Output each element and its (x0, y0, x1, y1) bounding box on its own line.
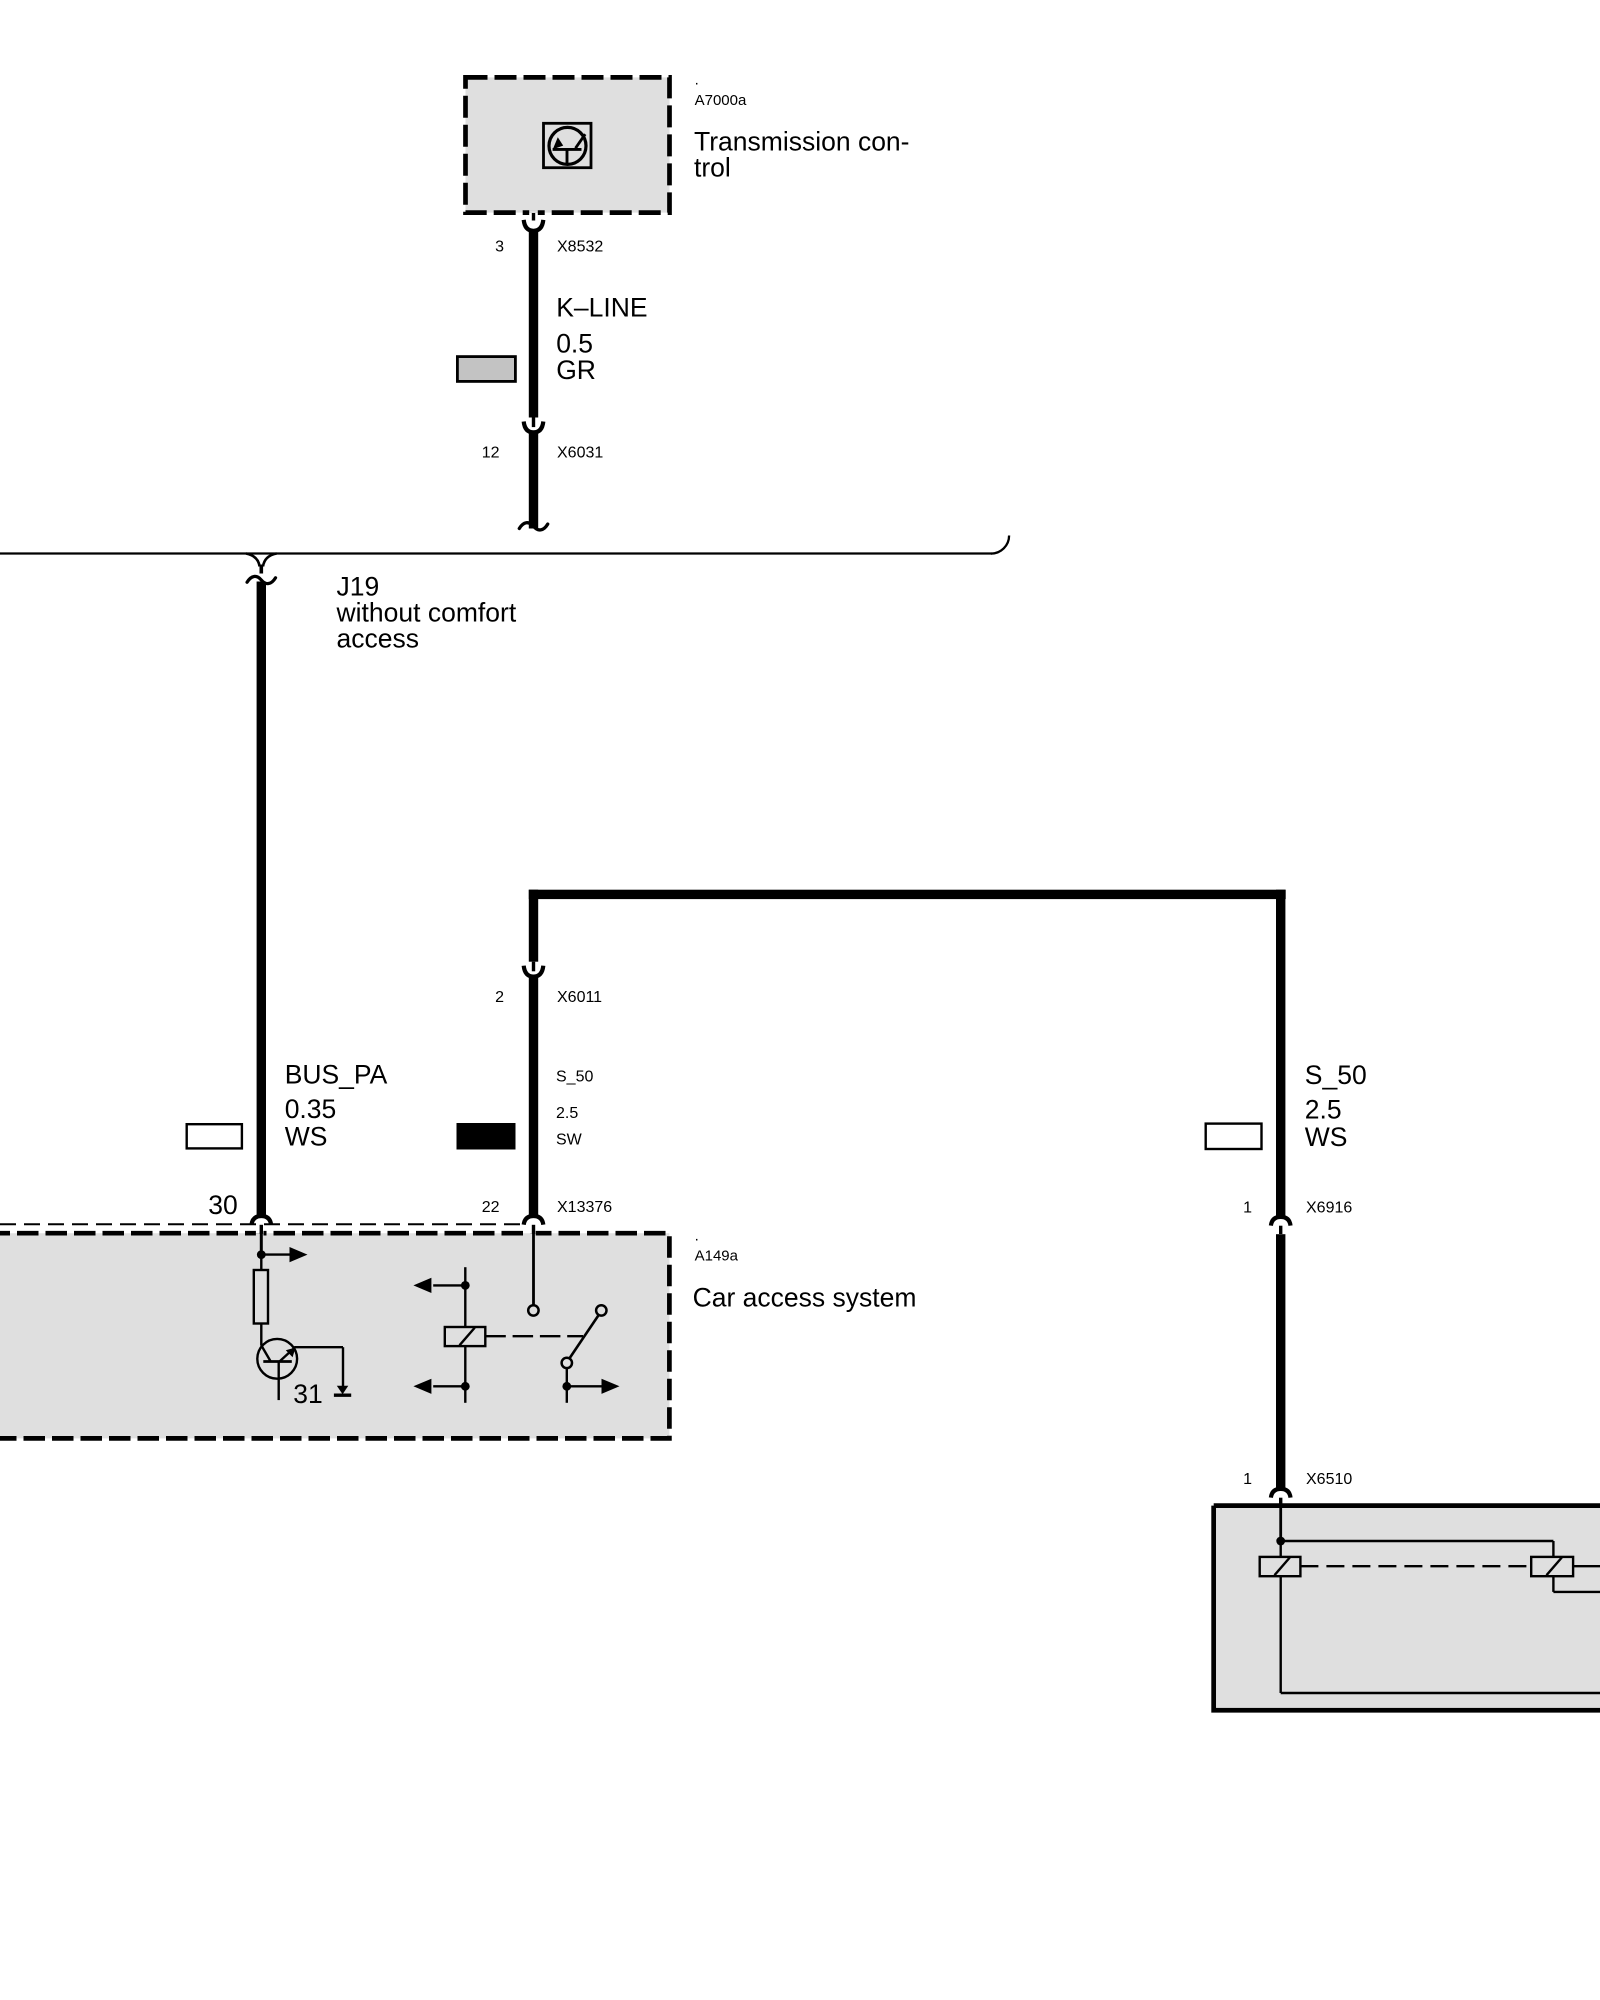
transistor base lead (260, 1324, 262, 1346)
svg-text:WS: WS (1305, 1122, 1348, 1152)
harness bus line (0, 552, 992, 554)
relay coil K3 lower lead (1552, 1576, 1554, 1592)
option region dashed boundary (0, 1223, 524, 1225)
ground symbol (337, 1386, 349, 1394)
wire BUS_PA vertical (257, 582, 266, 1216)
connector X8532 cup (524, 220, 544, 231)
pin 30 internal lead (260, 1232, 263, 1255)
wire S_50 horizontal run (529, 890, 1286, 899)
svg-text:22: 22 (482, 1199, 500, 1216)
svg-text:1: 1 (1243, 1471, 1252, 1488)
relay mechanical link dashed (485, 1335, 583, 1337)
svg-text:2.5: 2.5 (556, 1105, 578, 1122)
relay coil K2 lead (1279, 1541, 1281, 1557)
svg-text:31: 31 (293, 1379, 322, 1409)
svg-text:.: . (695, 71, 699, 88)
internal node dot bottom box (1276, 1537, 1285, 1546)
internal node dot relay top (461, 1281, 470, 1290)
connector X6011 (532, 962, 535, 972)
connector X6510 (1271, 1489, 1291, 1498)
pin 22 internal lead (532, 1232, 535, 1305)
switch contact circle pin22 (528, 1305, 538, 1315)
svg-text:SW: SW (556, 1132, 583, 1149)
wire BUS_PA section break squiggle (247, 576, 275, 583)
wire K-LINE pin3 male pin from module (532, 213, 535, 221)
internal arrow left top (433, 1284, 465, 1286)
svg-text:trol: trol (694, 153, 731, 183)
svg-text:X8532: X8532 (557, 239, 603, 256)
switch lower contact circle (562, 1358, 572, 1368)
svg-text:1: 1 (1243, 1200, 1252, 1217)
relay coil K1 (445, 1327, 486, 1346)
internal node dot switch (562, 1382, 571, 1391)
svg-text:A149a: A149a (695, 1247, 739, 1264)
connector X6031 (532, 418, 535, 428)
module A149a Car access system box (0, 1233, 669, 1438)
relay lead upper (464, 1267, 466, 1327)
wire S_50 left vertical upper (529, 890, 538, 962)
svg-text:2.5: 2.5 (1305, 1094, 1342, 1124)
junction J19 branch funnel (246, 554, 260, 567)
transmission control icon circle (549, 127, 586, 164)
wire color swatch WS left (187, 1124, 242, 1148)
svg-text:X6011: X6011 (557, 989, 602, 1006)
wire color swatch GR (457, 357, 515, 382)
wire K-LINE lower segment (529, 433, 538, 529)
svg-text:WS: WS (285, 1122, 328, 1152)
svg-text:S_50: S_50 (556, 1068, 593, 1085)
svg-text:0.5: 0.5 (556, 329, 593, 359)
wire K-LINE upper segment (529, 232, 538, 418)
module A7000a Transmission control box (466, 77, 670, 212)
harness bus right end arc (991, 536, 1009, 554)
internal arrow right from pin30 (261, 1253, 290, 1255)
svg-text:12: 12 (482, 445, 500, 462)
relay coil K2 (1260, 1557, 1301, 1576)
svg-text:X13376: X13376 (557, 1199, 612, 1216)
pin 1 internal lead (1279, 1507, 1282, 1541)
module box bottom right (1214, 1506, 1600, 1711)
wire S_50 right vertical (1276, 890, 1285, 1216)
transmission control icon square (544, 123, 592, 167)
svg-text:30: 30 (208, 1190, 237, 1220)
svg-text:X6031: X6031 (557, 445, 603, 462)
resistor R (260, 1255, 262, 1270)
svg-text:K–LINE: K–LINE (556, 293, 647, 323)
wire color swatch SW (457, 1123, 516, 1150)
relay coil K3 (1531, 1557, 1573, 1576)
svg-text:BUS_PA: BUS_PA (285, 1060, 388, 1090)
svg-text:0.35: 0.35 (285, 1094, 337, 1124)
transistor Q circle (257, 1339, 297, 1379)
internal arrow right from switch (567, 1385, 602, 1387)
transistor collector exit wire (294, 1346, 343, 1348)
dash gap at pin 3 crossing (529, 210, 538, 213)
svg-text:2: 2 (495, 989, 504, 1006)
connector X6916 (1271, 1217, 1291, 1226)
svg-text:A7000a: A7000a (695, 92, 747, 109)
relay lead lower (464, 1346, 466, 1403)
switch pivot circle (596, 1305, 606, 1315)
switch blade (569, 1315, 598, 1359)
internal node dot pin30 (257, 1250, 266, 1259)
internal bottom wire (1281, 1692, 1600, 1695)
wire S_50 left vertical lower (529, 977, 538, 1215)
transmission control icon glyph (553, 134, 586, 164)
internal wire to relay K3 (1281, 1540, 1554, 1542)
relay mechanical link dashed bottom (1300, 1565, 1531, 1567)
transistor base diagonal (261, 1345, 270, 1361)
dash gap at pin 22 crossing (528, 1230, 536, 1233)
internal arrow left bottom (433, 1385, 465, 1387)
transistor base bar (263, 1360, 292, 1363)
switch lower lead (566, 1368, 568, 1403)
wire K-LINE section break squiggle (519, 523, 547, 530)
pin 30 connector cup at A149a (252, 1216, 272, 1225)
svg-text:Car access system: Car access system (693, 1282, 917, 1312)
svg-text:access: access (337, 623, 419, 653)
svg-text:GR: GR (556, 355, 596, 385)
svg-text:S_50: S_50 (1305, 1060, 1367, 1090)
pin 22 connector cup at A149a (524, 1216, 544, 1225)
svg-text:X6916: X6916 (1306, 1200, 1352, 1217)
wire color swatch WS right (1206, 1124, 1262, 1149)
svg-text:.: . (695, 1227, 699, 1244)
wire S_50 lower vertical to X6510 (1276, 1234, 1285, 1487)
svg-text:X6510: X6510 (1306, 1471, 1352, 1488)
transistor collector diagonal (280, 1347, 296, 1362)
dash gap at pin 30 crossing (256, 1230, 264, 1233)
svg-text:3: 3 (495, 239, 504, 256)
internal node dot relay bottom (461, 1382, 470, 1391)
transistor emitter (278, 1362, 280, 1401)
